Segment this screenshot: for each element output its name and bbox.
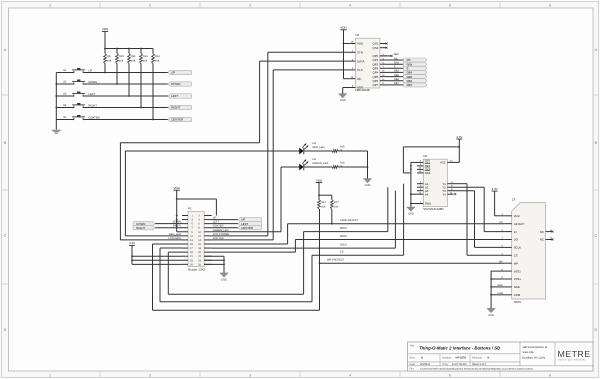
svg-text:CLK: CLK [357,68,363,72]
pin 20 of P1 [198,251,212,254]
svg-text:3.3V: 3.3V [492,187,498,191]
port DB6 (LCD bus) [403,79,427,83]
pushbutton S4 RIGHT [63,103,97,109]
svg-text:1: 1 [49,373,51,377]
svg-text:A4: A4 [425,192,429,196]
svg-text:DATA: DATA [357,59,365,63]
pin CLK (3) of U4 [349,67,362,72]
port DOWN (P1) [133,222,155,226]
svg-text:Number:: Number: [442,356,452,359]
wire net DB7 [387,82,404,85]
pushbutton S2 DOWN [63,80,97,86]
svg-text:LEFT: LEFT [89,93,96,96]
wire net CS row [312,251,404,302]
ground (SD card) [487,308,495,317]
svg-text:VDD: VDD [102,27,109,31]
pin QS2 (10) of U4, no-connect [373,46,388,50]
svg-text:4: 4 [349,373,351,377]
power 3.3V (SD card) [492,187,505,216]
wire VDD to R14,R17 [318,194,332,199]
wire 3.3V line to U5 VCC and OE4 [403,146,460,173]
pin 19 of P1 [182,251,193,254]
wire net RS [387,57,404,60]
pin 22 of P1 [198,255,212,258]
pin VCC (14) of U5 [440,160,454,165]
svg-text:DB6: DB6 [394,78,399,81]
pin 2 of P1 [198,215,212,218]
wire net LCD DATA : U4.DATA down and left to P1 pin 13 [120,61,349,240]
svg-text:METRE: METRE [558,349,591,359]
resistor R16 1k [304,162,345,169]
svg-text:Header 13X2: Header 13X2 [188,267,205,271]
pin OE1 (1) of U5 [417,160,431,165]
wire net MISO row [295,235,504,240]
svg-text:CENTER: CENTER [171,118,183,122]
pin 12 of P1 [198,235,212,238]
svg-text:10k: 10k [143,59,148,62]
svg-text:C: C [594,234,597,238]
power VDD (P1) [174,186,181,199]
pin 21 of P1 [182,255,193,258]
svg-text:U4: U4 [355,33,359,37]
pin NC (8) of J3, no-connect [540,229,554,234]
svg-text:RED_LED: RED_LED [313,146,325,149]
power VDD (SD pull-ups) [316,178,323,195]
wire button row CENTER [56,119,168,121]
pin Y2 (6) of U5 [442,185,453,190]
svg-text:VSS1: VSS1 [514,277,522,281]
pin GND (GND) of J3 [497,284,519,289]
svg-text:QP7: QP7 [373,83,379,87]
svg-text:5: 5 [449,4,451,8]
svg-text:VDD: VDD [340,26,347,30]
pin DI (2) of J3 [501,229,516,234]
pin 11 of P1 [182,235,193,238]
svg-text:188 Schermerhorn St.: 188 Schermerhorn St. [523,346,549,349]
wire net WR PROTECT : P1 pin 15 snake [153,244,320,310]
svg-text:CARD DETECT: CARD DETECT [340,219,359,222]
title block [408,342,594,371]
svg-text:MOSI: MOSI [340,227,347,230]
svg-text:LCD DATA: LCD DATA [169,237,182,240]
svg-text:J3: J3 [512,197,516,201]
pin COM (COM) of J3 [497,292,521,297]
svg-text:DOWN: DOWN [173,221,181,224]
ground (U5) [407,207,415,216]
wire net R/W [387,62,404,65]
svg-text:CS: CS [340,251,344,254]
pin 14 of P1 [198,239,212,242]
svg-text:RS: RS [394,57,398,60]
pin 15 of P1 [182,243,193,246]
op-amp U4 HEF4094B shift register body [355,33,380,92]
wire net CARD DETECT : P1 pin 16 [212,224,288,244]
port UP (P1) [238,217,262,221]
svg-text:GND: GND [408,213,414,216]
svg-text:CD: CD [499,221,503,224]
port E (LCD bus) [403,66,427,70]
resistor R13 10k pull-up [152,49,161,121]
resistor R14 10k (WR PROTECT pull-up) [318,200,327,210]
wire net LCD STROBE : U4.STR down to P1 pin 12 [212,52,350,236]
svg-text:S5: S5 [63,116,67,119]
svg-text:DB0: DB0 [394,53,400,56]
pushbutton S1 UP [63,68,92,74]
svg-text:DI: DI [514,230,517,234]
svg-text:VCC: VCC [440,161,446,165]
pin OE4 (13) of U5 [417,170,431,175]
svg-text:D4: D4 [313,158,317,161]
power 3.3V (P1) [129,241,135,264]
wire net CARD DETECT row to SD DETECT [288,209,505,225]
svg-text:QS2: QS2 [373,46,379,50]
svg-text:Suite 18E: Suite 18E [523,351,535,354]
pin QP6 (12) of U4 [373,78,387,83]
pin OE (15) of U4 [349,76,361,81]
svg-text:CENTER: CENTER [241,226,253,230]
svg-text:Y4: Y4 [442,192,446,196]
svg-text:3: 3 [249,4,251,8]
pin QP7 (11) of U4 [373,82,387,87]
svg-text:2: 2 [149,373,151,377]
svg-text:RIGHT: RIGHT [89,104,98,107]
svg-text:3.3V: 3.3V [456,135,462,139]
pin STR (1) of U4 [349,50,363,55]
wire 3.3V to P1 pins 21,23,25 [131,255,182,264]
svg-text:NC: NC [540,230,544,234]
wire net CS : P1 pin 17 snake [160,248,312,302]
svg-text:OE4: OE4 [425,171,431,175]
svg-text:RIGHT: RIGHT [173,225,181,228]
port CENTER (buttons) [168,117,192,121]
wire net LEFT to P1 pin 6 [212,221,238,224]
svg-text:6: 6 [549,373,551,377]
svg-text:DETECT: DETECT [514,222,525,226]
wire net E [387,66,404,69]
pin A4 (12) of U5 [417,192,429,197]
pin DO (7) of J3 [501,237,518,242]
pin QP0 (4) of U4 [373,53,387,58]
port RIGHT (P1) [133,226,155,230]
resistor R12 10k pull-up [140,49,149,109]
pin 8 of P1 [198,227,212,230]
wire LED cathodes to ground [339,151,369,179]
wire MOSI riser to U5.A2 [387,187,389,231]
svg-text:WR PROTECT: WR PROTECT [327,259,345,262]
svg-text:S2: S2 [63,80,67,83]
resistor R17 10k (CARD DETECT pull-up) [330,200,339,210]
svg-text:R13: R13 [155,55,160,58]
power VDD (U4) [340,26,347,44]
svg-text:Title: Title [410,345,415,348]
svg-text:Brooklyn, NY 11201: Brooklyn, NY 11201 [523,356,546,359]
wire U4 VSS to ground [343,88,350,94]
pushbutton S3 LEFT [63,92,95,98]
pin A1 (2) of U5 [417,181,429,186]
wire net DB4 [387,70,404,73]
svg-text:WP: WP [514,261,519,265]
wire net MOSI : P1 pin 19 snake [168,252,303,294]
svg-text:RIGHT: RIGHT [136,226,145,230]
svg-text:3.3V: 3.3V [129,241,135,245]
svg-text:LEFT: LEFT [171,94,178,98]
wire button row UP [56,72,168,74]
pin Y4 (11) of U5 [442,192,453,197]
pin 16 of P1 [198,243,212,246]
port DOWN (buttons) [168,82,192,86]
svg-text:OE: OE [357,77,361,81]
svg-text:RIGHT: RIGHT [171,106,180,110]
svg-text:10k: 10k [107,59,112,62]
wire net CENTER to P1 pin 8 [212,225,238,228]
svg-text:10k: 10k [155,59,160,62]
svg-text:3/5/2011: 3/5/2011 [420,363,430,366]
svg-text:SCLK: SCLK [340,244,347,247]
ground (P1) [220,273,228,282]
power VDD (buttons pull-up) [102,27,109,48]
pin 13 of P1 [182,239,193,242]
svg-text:R/W: R/W [394,62,400,65]
svg-text:S1: S1 [63,69,67,72]
port DB7 (LCD bus) [403,83,427,87]
pin 7 of P1 [182,227,193,230]
port LEFT (buttons) [168,94,192,98]
pin SCLK (5) of J3 [501,245,521,250]
svg-text:CENTER: CENTER [213,225,224,228]
pin VDD (4) of J3 [501,213,519,218]
svg-text:U5: U5 [423,154,427,158]
wire U5.Y3 to SD SCLK [454,191,505,248]
pin GND (7) of U5 [411,201,431,206]
pin 4 of P1 [198,219,212,222]
wire net MOSI row [304,227,388,294]
svg-text:DB7: DB7 [407,83,413,87]
svg-text:D3: D3 [313,142,317,145]
svg-text:Size:: Size: [410,356,416,359]
port DB4 (LCD bus) [403,70,427,74]
svg-text:2: 2 [149,4,151,8]
pin 9 of P1 [182,231,193,234]
wire VDD to P1 pins 1,2,3,9 [176,198,217,232]
wire net UP to P1 pin 4 [212,217,238,220]
port UP (buttons) [168,70,192,74]
wire P1 pins 22,24,26 to ground [204,256,225,273]
resistor R9 10k pull-up [104,49,112,74]
svg-text:File:: File: [410,367,415,370]
pin Y4 no-connect cross [454,193,456,195]
pin QP2 (6) of U4 [373,62,387,67]
svg-text:Sheet 2 of 2: Sheet 2 of 2 [472,363,487,366]
pin Y1 (3) of U5 [442,181,453,186]
port RIGHT (buttons) [168,105,192,109]
svg-text:GND: GND [221,279,227,282]
svg-text:DB7: DB7 [394,82,399,85]
wire VDD bus to pull-up resistors [104,48,153,50]
pin QP5 (13) of U4 [373,74,387,79]
LED D3 RED_LED [299,142,324,154]
svg-text:UP: UP [213,217,217,220]
pin OE2 (4) of U5 [417,163,431,168]
svg-text:GND: GND [514,285,520,289]
wire button row LEFT [56,95,168,97]
svg-text:MISO: MISO [340,235,347,238]
ground (buttons) [52,130,61,133]
svg-text:R12: R12 [143,55,148,58]
pin VDD (16) of U4 [349,41,364,46]
svg-text:VDD: VDD [357,42,364,46]
wire ground rail (buttons) [55,73,57,130]
svg-text:10k: 10k [119,59,124,62]
wire net LCD CLK : U4.CLK down to P1 pin 14 [212,70,350,240]
resistor R10 10k pull-up [116,49,125,85]
svg-text:MP1808: MP1808 [456,355,467,359]
op-amp U5 SN74AHC125D buffer body [423,154,447,211]
pin 5 of P1 [182,223,193,226]
svg-text:GND: GND [340,99,346,102]
svg-text:D: D [4,328,7,332]
svg-text:LCD CLK: LCD CLK [213,237,224,240]
wire net MISO : P1 pin 20 [212,240,296,253]
pin VSS2 (6) of J3 [501,268,521,273]
svg-text:DOWN: DOWN [89,81,98,84]
wire button row RIGHT [56,107,168,109]
port CENTER (P1) [238,226,262,230]
pin NC (9) of J3, no-connect [540,237,554,242]
svg-text:DB5: DB5 [394,74,399,77]
pin QP3 (7) of U4 [373,66,387,71]
resistor R11 10k pull-up [128,49,137,97]
svg-text:5: 5 [449,373,451,377]
pin Y3 (8) of U5 [442,188,453,193]
pin 6 of P1 [198,223,212,226]
wire net DOWN to P1 pin 5 [155,221,182,224]
svg-text:COM: COM [514,293,521,297]
wire net WR PROTECT row to SD WP [319,209,505,310]
wire VDD to U4 VDD and OE [343,43,350,79]
svg-text:STR: STR [357,50,364,54]
svg-text:RED_LED: RED_LED [169,233,181,236]
wire U5 OE/A4/GND rail to ground [410,162,417,207]
port DB5 (LCD bus) [403,75,427,79]
wire QP0 stub with DB0 label, no-connect [380,53,399,57]
svg-text:CS: CS [514,253,518,257]
svg-text:CENTER: CENTER [89,116,100,119]
power 3.3V (U5) [456,135,462,163]
svg-text:UP: UP [171,71,175,75]
svg-text:SCLK: SCLK [514,246,521,250]
resistor R15 1k [304,146,345,153]
pin QP1 (5) of U4 [373,57,387,62]
svg-text:C:\Users\Sw\7oltG Interfaceboa: C:\Users\Sw\7oltG Interfaceboard\Duplica… [420,367,534,370]
pin WP (WP) of J3 [499,260,518,265]
svg-text:B: B [488,355,490,359]
pushbutton S5 CENTER [63,115,99,121]
wire net RED_LED : P1 pin 11 to D3 [125,151,299,236]
wire CS riser to U5.A1 [403,184,405,256]
svg-text:GND: GND [488,314,494,317]
pin DETECT (CD) of J3 [499,221,525,226]
svg-text:GREEN_LED: GREEN_LED [213,229,229,232]
svg-text:Revision:: Revision: [472,356,483,359]
pin CS (1) of J3 [501,253,517,258]
pin OE3 (10) of U5 [417,167,431,172]
pin A2 (5) of U5 [417,185,429,190]
svg-text:LCD STROBE: LCD STROBE [213,233,230,236]
pin 18 of P1 [198,247,212,250]
svg-text:SD01: SD01 [514,300,522,304]
svg-text:S4: S4 [63,104,67,107]
pin 24 of P1 [198,259,212,262]
svg-text:P1: P1 [188,207,192,211]
svg-text:VDD: VDD [514,214,520,218]
pin 1 of P1 [182,215,193,218]
port RS (LCD bus) [403,58,427,62]
svg-text:GREEN_LED: GREEN_LED [313,162,329,165]
svg-text:VDD: VDD [174,186,181,190]
connector P1 Header 13X2 body [188,207,205,272]
pin 3 of P1 [182,219,193,222]
svg-text:NC: NC [540,238,544,242]
port LEFT (P1) [238,222,262,226]
wire SCLK riser to U5.A3 [394,191,396,248]
svg-text:11:07:06 AM: 11:07:06 AM [452,363,466,366]
wire SD VSS/GND/COM rail to ground [490,271,504,308]
pin 17 of P1 [182,247,193,250]
svg-text:3: 3 [249,373,251,377]
svg-text:D: D [594,328,597,332]
wire net SCLK : P1 pin 18 [212,244,396,248]
wire U5.Y2 to SD DI [454,187,505,231]
wire net DB5 [387,74,404,77]
svg-text:C: C [4,234,7,238]
wire U5.Y1 to SD CS [454,184,505,256]
svg-text:UP: UP [89,69,93,72]
ground (U4) [339,94,347,103]
pin 25 of P1 [182,263,193,266]
svg-text:IDEAS and DESIGN: IDEAS and DESIGN [558,359,585,362]
svg-text:10k: 10k [131,59,136,62]
pin DATA (2) of U4 [349,58,364,63]
pin QP4 (14) of U4 [373,70,387,75]
wire net DB6 [387,78,404,81]
pin 23 of P1 [182,259,193,262]
svg-text:SN74AHC125D: SN74AHC125D [423,207,443,211]
svg-text:B: B [421,355,423,359]
svg-text:R9: R9 [107,55,111,58]
svg-text:R11: R11 [131,55,136,58]
wire net GREEN_LED : P1 pin 10 to D4 [212,167,300,232]
svg-text:R10: R10 [119,55,124,58]
pin 26 of P1 [198,263,212,266]
svg-text:WP: WP [499,260,503,263]
svg-text:VSS: VSS [357,86,363,90]
svg-text:DOWN: DOWN [171,82,180,86]
svg-text:GND: GND [425,202,431,206]
connector J3 SD card socket body [512,197,546,303]
port R/W (LCD bus) [403,62,427,66]
svg-text:Time:: Time: [442,363,449,366]
wire button row DOWN [56,83,168,85]
svg-text:R14: R14 [321,201,326,204]
svg-text:DB4: DB4 [394,70,399,73]
pin VSS (8) of U4 [349,85,363,90]
svg-text:6: 6 [549,4,551,8]
ground (LEDs) [363,179,371,188]
pin QS1 (9) of U4, no-connect [373,42,388,46]
svg-text:GND: GND [365,184,371,187]
svg-text:LEFT: LEFT [213,221,220,224]
pin A3 (9) of U5 [417,188,429,193]
